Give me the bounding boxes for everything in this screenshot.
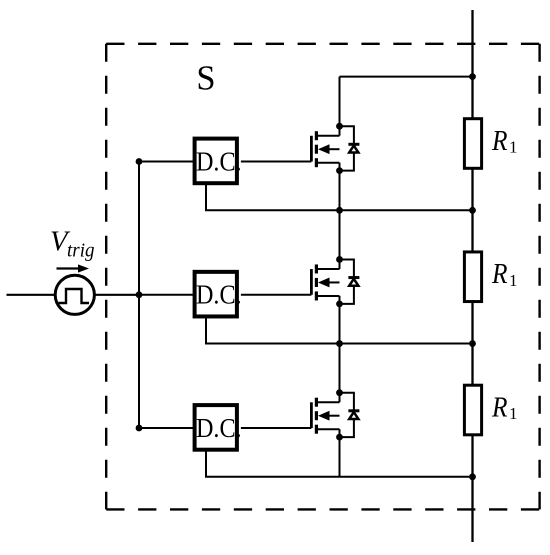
- svg-text:D.C.: D.C.: [196, 413, 242, 443]
- svg-text:1: 1: [509, 138, 518, 157]
- svg-text:1: 1: [509, 404, 518, 423]
- svg-text:D.C.: D.C.: [196, 146, 242, 176]
- svg-text:R: R: [491, 126, 507, 157]
- svg-text:S: S: [196, 59, 215, 97]
- svg-text:R: R: [491, 259, 507, 290]
- svg-text:trig: trig: [67, 240, 95, 262]
- svg-text:R: R: [491, 392, 507, 423]
- svg-text:D.C.: D.C.: [196, 280, 242, 310]
- svg-text:1: 1: [509, 271, 518, 290]
